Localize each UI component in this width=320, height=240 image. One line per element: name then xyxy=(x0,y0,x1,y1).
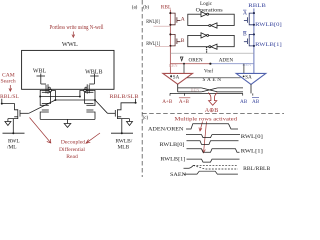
peripheral gray wire xyxy=(170,52,254,54)
svg-text:RWL[0]: RWL[0] xyxy=(146,19,160,25)
svg-text:RBL/SL: RBL/SL xyxy=(0,94,20,100)
annotation arrow left (to left read transistor) xyxy=(30,118,51,144)
ground cell xyxy=(64,119,71,127)
svg-text:RWLB[1]: RWLB[1] xyxy=(160,157,185,162)
waveform RWLB[0] trace xyxy=(187,141,239,145)
bus bottom wire xyxy=(170,92,243,94)
svg-text:SAEN: SAEN xyxy=(170,173,186,177)
svg-text:RBLB/SLB: RBLB/SLB xyxy=(110,94,139,100)
inverter right PMOS xyxy=(85,87,95,100)
waveform ADEN/OREN xyxy=(186,124,238,129)
inverter left NMOS xyxy=(40,97,50,120)
wire RWL[0] to rail (light red) xyxy=(154,25,171,27)
wire diagonal left read gate to QB xyxy=(29,100,56,113)
svg-text:WWL: WWL xyxy=(62,41,78,48)
svg-text:WBL: WBL xyxy=(33,68,47,74)
transistor B-bar pass (row 1 right) xyxy=(244,34,254,46)
transistor A-bar pass (row 0 right) xyxy=(244,13,254,25)
svg-text:RWL[0]: RWL[0] xyxy=(241,135,263,140)
svg-text:RWL[1]: RWL[1] xyxy=(241,149,263,154)
svg-text:AB: AB xyxy=(240,99,248,105)
svg-text:SA: SA xyxy=(245,76,252,81)
svg-text:RWLB[0]: RWLB[0] xyxy=(160,143,185,148)
transistor left read NMOS xyxy=(2,99,29,119)
transistor A pass (row 0 left) xyxy=(170,13,180,25)
inverter right NMOS xyxy=(85,97,95,120)
row1 buffer loop box xyxy=(188,35,234,46)
wire RBLB rail (blue) xyxy=(253,9,255,74)
row0 buffer loop box xyxy=(188,14,234,25)
svg-text:RBL: RBL xyxy=(161,5,171,11)
svg-text:Read: Read xyxy=(66,154,78,160)
waveform SAEN xyxy=(184,171,238,174)
svg-text:Decoupled: Decoupled xyxy=(61,140,85,146)
svg-text:AB: AB xyxy=(252,99,260,105)
waveform RWL[0] trace xyxy=(186,135,240,138)
waveform RBLB dashed decay xyxy=(193,165,238,169)
junction dots on RBL rail xyxy=(169,12,171,47)
inverter left PMOS xyxy=(40,87,50,100)
dotted continuation below row1 xyxy=(206,47,207,53)
wire RWL[1] to rail (light red) xyxy=(155,45,170,47)
svg-text:Search: Search xyxy=(1,79,16,85)
wire SA left output xyxy=(177,84,179,92)
svg-text:ADEN/OREN: ADEN/OREN xyxy=(148,127,184,132)
ground right read xyxy=(127,119,133,126)
wire right read to RWLB xyxy=(121,119,123,134)
svg-text:WBLB: WBLB xyxy=(85,69,102,75)
svg-text:(b): (b) xyxy=(143,5,149,10)
svg-text:ADEN: ADEN xyxy=(219,58,234,64)
transistor WBLB write PMOS xyxy=(80,74,99,97)
svg-text:/ML: /ML xyxy=(7,145,17,151)
wire RBL rail (red) xyxy=(169,10,171,74)
svg-text:A: A xyxy=(243,11,247,17)
ground left read xyxy=(5,119,11,126)
XOR red arrow down (fat outlined arrow) xyxy=(208,93,217,106)
wire RWLB/MLB xyxy=(111,132,133,134)
svg-text:A+B: A+B xyxy=(179,99,190,105)
waveform RBL/RBLB solid rise xyxy=(184,165,194,168)
wire SA right second input xyxy=(243,64,245,74)
wire SA left second input xyxy=(183,64,185,74)
wire SA right output xyxy=(250,84,252,93)
svg-text:B: B xyxy=(243,32,247,38)
svg-text:Vref: Vref xyxy=(204,68,213,75)
svg-text:Multiple rows activated: Multiple rows activated xyxy=(175,116,238,122)
wire Vref distribution red half xyxy=(170,63,210,65)
waveform RWLB[1] trace xyxy=(187,159,240,162)
svg-text:OREN: OREN xyxy=(189,58,203,64)
bus crossover X xyxy=(201,88,217,92)
sense amp left (red) xyxy=(163,73,193,84)
svg-text:A⊕B: A⊕B xyxy=(205,108,219,114)
svg-text:RBLB: RBLB xyxy=(248,3,266,9)
svg-text:RWLB[1]: RWLB[1] xyxy=(255,42,282,48)
waveform RWL[1] trace xyxy=(187,149,240,153)
svg-text:(c): (c) xyxy=(143,116,149,121)
wire diagonal right read gate to Q xyxy=(95,100,108,113)
wire RWL/ML xyxy=(3,132,25,134)
wire cell bottom rail xyxy=(40,118,95,120)
wire node QB xyxy=(55,99,95,101)
svg-text:Portless write using N-well: Portless write using N-well xyxy=(50,25,104,31)
panel border dashed between a and b/c xyxy=(141,0,143,177)
inverter row0 forward xyxy=(201,12,209,17)
svg-text:Logic: Logic xyxy=(200,1,213,7)
wire Vref distribution blue half xyxy=(210,63,254,65)
WWL box xyxy=(22,50,114,89)
svg-text:SA: SA xyxy=(173,75,180,80)
bus wire lower xyxy=(178,91,243,93)
small enable triangle xyxy=(180,57,183,61)
transistor right read NMOS xyxy=(108,99,136,119)
wire node Q xyxy=(40,96,80,98)
sense amp right (blue) xyxy=(236,73,266,84)
svg-text:A+B: A+B xyxy=(162,99,173,105)
transistor B pass (row 1 left) xyxy=(170,34,180,46)
svg-text:Differential: Differential xyxy=(59,146,85,153)
svg-text:RWLB[0]: RWLB[0] xyxy=(255,22,282,28)
bus wire upper xyxy=(178,87,243,89)
svg-text:SAEN: SAEN xyxy=(203,77,222,83)
waveform RBL dashed flat xyxy=(193,164,238,166)
annotation arrow right (to right read transistor) xyxy=(86,133,100,143)
svg-text:B: B xyxy=(181,38,185,44)
svg-text:(a): (a) xyxy=(132,5,138,10)
svg-text:BEN: BEN xyxy=(191,88,201,93)
annotation red arrow long xyxy=(202,122,207,153)
svg-text:Operations: Operations xyxy=(196,7,223,13)
annotation red arrow short xyxy=(199,122,203,132)
svg-text:A: A xyxy=(181,17,185,23)
svg-text:RBL/RBLB: RBL/RBLB xyxy=(243,167,271,172)
CAM search arrow xyxy=(9,85,12,91)
inverter row1 forward xyxy=(201,33,209,38)
inverter row0 backward xyxy=(209,23,217,28)
panel border dashed bottom of b xyxy=(142,113,284,115)
bus output stubs xyxy=(170,93,253,95)
inverter row1 backward xyxy=(209,44,217,49)
transistor WBL write PMOS xyxy=(37,74,56,101)
junction dots on RBLB rail xyxy=(253,12,255,47)
wire SAEN between SAs xyxy=(187,77,241,79)
wire left read to RWL xyxy=(12,119,14,134)
svg-text:MLB: MLB xyxy=(118,145,130,151)
annotation arrow down to WWL xyxy=(72,32,75,38)
